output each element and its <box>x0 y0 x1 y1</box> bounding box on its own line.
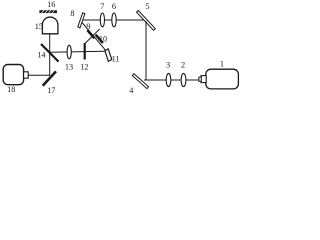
svg-text:6: 6 <box>112 2 116 11</box>
svg-text:1: 1 <box>220 60 224 69</box>
waveplate 9 <box>87 30 94 38</box>
svg-text:12: 12 <box>80 63 88 72</box>
mirror 4 <box>132 74 148 89</box>
svg-text:18: 18 <box>7 85 15 94</box>
svg-text:15: 15 <box>35 22 43 31</box>
laser 1 <box>206 69 239 89</box>
svg-text:10: 10 <box>99 35 107 44</box>
svg-text:8: 8 <box>70 9 74 18</box>
mirror 5 <box>137 11 156 31</box>
laser 18 <box>3 65 23 85</box>
element 12 (bar) <box>84 43 86 60</box>
svg-text:2: 2 <box>181 61 185 70</box>
svg-text:13: 13 <box>65 63 73 72</box>
svg-text:5: 5 <box>145 2 149 11</box>
lens 3 <box>166 73 171 86</box>
thin cross line through 9 and 10 <box>85 29 100 44</box>
wire mirror8 to mirror11 (diagonal beam) <box>82 23 106 51</box>
mirror 11 <box>105 49 112 62</box>
mirror 17 <box>43 71 56 85</box>
wire mirror5 to mirror4 (vertical) <box>145 21 147 80</box>
lens 6 <box>112 13 116 27</box>
wire laser18 to mirror17 <box>28 74 49 76</box>
svg-text:9: 9 <box>86 22 90 31</box>
svg-text:14: 14 <box>37 51 46 60</box>
lens 2 <box>181 73 186 86</box>
wire mirror17 to detector15 (vertical) <box>49 34 51 76</box>
hatched bar 16 <box>39 10 57 13</box>
wire mirror4 to laser1 (bottom beam) <box>144 79 200 81</box>
beamsplitter 14 <box>41 44 59 62</box>
lens 13 <box>67 45 71 59</box>
detector 15 (dome) <box>42 17 58 34</box>
waveplate 10 <box>96 35 103 43</box>
svg-text:16: 16 <box>47 0 55 9</box>
svg-text:3: 3 <box>166 61 170 70</box>
wire mirror8 to mirror5 (top beam) <box>83 19 147 21</box>
svg-text:7: 7 <box>100 2 104 11</box>
mirror 8 <box>78 13 85 28</box>
svg-text:17: 17 <box>47 86 55 95</box>
wire beamsplitter14 to mirror11 (horizontal) <box>50 51 105 52</box>
lens 7 <box>100 13 104 27</box>
svg-text:11: 11 <box>112 55 120 64</box>
